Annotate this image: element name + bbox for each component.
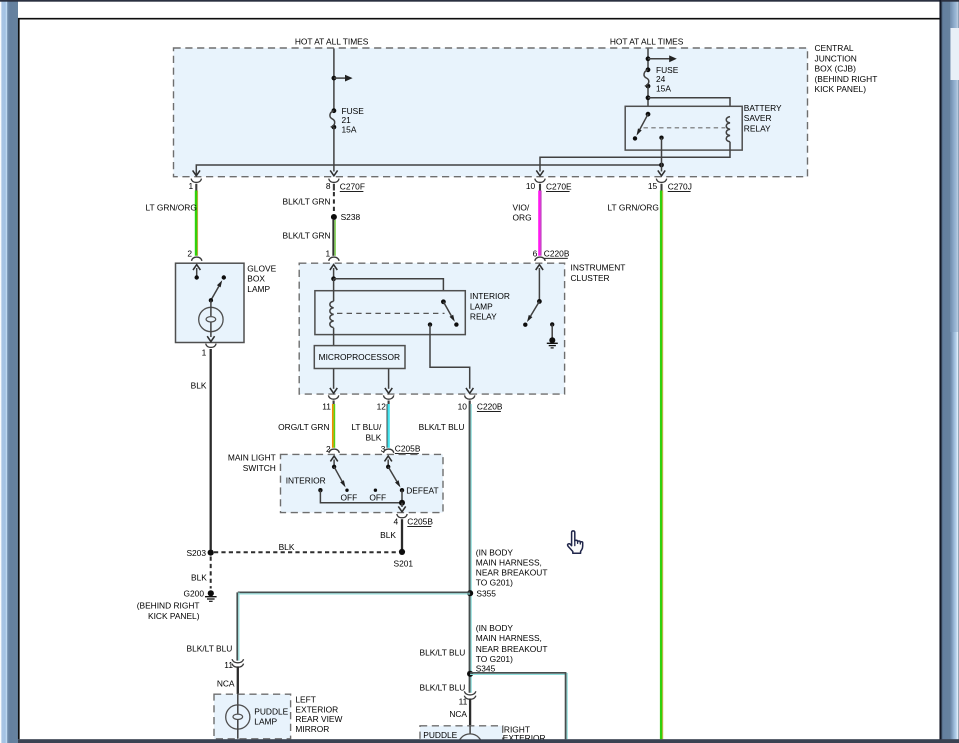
svg-text:11: 11 [224,660,233,670]
wire label BLK/LT BLU (above S345) [420,648,466,658]
svg-text:C270F: C270F [340,181,365,191]
relay contact (right) [454,322,458,326]
svg-text:(BEHIND RIGHT: (BEHIND RIGHT [815,74,878,84]
contact OFF (right) [369,489,386,503]
svg-text:G200: G200 [184,589,205,599]
svg-text:LAMP: LAMP [247,284,270,294]
svg-text:LEFT: LEFT [295,694,315,704]
relay actuation dashed link [644,127,726,129]
pin number 8 and connector label C270F [326,181,365,191]
wire INTERIOR contact to output junction [320,490,402,503]
wire pin 1 dot to coil [333,279,335,301]
svg-text:15A: 15A [342,124,357,134]
svg-text:INTERIOR: INTERIOR [286,476,326,486]
connector cup cluster pin 6 [535,257,545,261]
switch entry arrow pin 2 [330,456,337,469]
svg-text:MICROPROCESSOR: MICROPROCESSOR [319,352,400,362]
wire LT BLU/BLK pin 12 to switch pin 3 [387,404,389,448]
wire ORG/LT GRN pin 11 to switch pin 2 [333,404,335,448]
svg-text:BLK: BLK [191,572,207,582]
svg-text:LT GRN/ORG: LT GRN/ORG [608,202,659,212]
svg-text:MAIN HARNESS,: MAIN HARNESS, [476,557,542,567]
fuse F24 [644,67,650,88]
connector cup cluster pin 1 [329,257,339,261]
instrument cluster dashed enclosure [299,263,564,394]
svg-text:BLK: BLK [380,530,396,540]
glove box lamp bulb [199,300,223,331]
svg-text:VIO/: VIO/ [513,202,530,212]
connector cup pin 10 C270E [535,179,545,191]
wire BLK/LT BLU pin 10 down [470,404,472,693]
wire microprocessor to pin 12 [388,369,390,389]
svg-text:MAIN HARNESS,: MAIN HARNESS, [476,633,542,643]
svg-text:10: 10 [526,181,536,191]
S345 harness label [476,623,548,673]
connector cup cluster pin 11 [328,395,338,404]
right puddle lamp bulb [458,726,482,743]
cluster exit arrow pin 10 [466,388,473,393]
wire feed to fuse 21 [333,49,335,111]
svg-text:SAVER: SAVER [744,113,772,123]
svg-text:KICK PANEL): KICK PANEL) [148,611,200,621]
svg-text:BLK/LT BLU: BLK/LT BLU [420,648,466,658]
cluster exit arrow pin 11 [330,388,337,393]
svg-text:15A: 15A [656,84,671,94]
svg-text:LAMP: LAMP [254,717,277,727]
instrument cluster label [571,263,626,283]
battery saver relay box [625,106,742,150]
central junction box CJB dashed enclosure [174,48,808,177]
svg-text:C270J: C270J [668,181,692,191]
CJB label [815,43,878,94]
wire fuse 24 to relay coil (top path) [646,95,730,116]
battery saver relay label [744,103,782,134]
left puddle lamp dashed enclosure [214,694,291,739]
pin 2 and 3 cups with labels C205B [326,444,339,454]
svg-text:BLK: BLK [365,433,381,443]
svg-text:(IN BODY: (IN BODY [476,623,514,633]
svg-text:LAMP: LAMP [470,301,493,311]
svg-text:SWITCH: SWITCH [243,463,276,473]
contact INTERIOR [286,476,326,493]
connector cup cluster pin 10 [465,395,475,404]
interior lamp relay label [470,291,510,322]
wire relay output to pin 15 [661,138,663,172]
svg-text:11: 11 [322,402,331,412]
microprocessor label [319,352,400,362]
wire relay coil to pin 10 (line A) [540,142,730,172]
svg-text:C270E: C270E [546,181,572,191]
glove box lamp label [247,263,276,294]
svg-text:BLK/LT GRN: BLK/LT GRN [283,197,331,207]
wire BLK glove box to S203 [210,349,212,550]
svg-text:TO G201): TO G201) [476,654,513,664]
left mirror label [295,694,342,734]
right mirror label [503,725,546,743]
contact OFF (left) [341,489,358,503]
svg-text:10: 10 [458,402,468,412]
microprocessor box [314,346,405,369]
wire label LT GRN/ORG (left) [146,202,197,212]
svg-text:12: 12 [377,402,387,412]
wire label BLK/LT BLU (left branch) [187,644,233,654]
splice S345 [467,671,473,677]
svg-text:(BEHIND RIGHT: (BEHIND RIGHT [137,600,200,610]
svg-text:OFF: OFF [369,492,386,502]
wire relay output to pin 10 [430,325,470,389]
svg-text:ORG/LT GRN: ORG/LT GRN [278,422,329,432]
svg-text:1: 1 [202,347,207,357]
svg-text:(IN BODY: (IN BODY [476,547,514,557]
left scrollbar chrome [0,0,18,743]
svg-text:HOT AT ALL TIMES: HOT AT ALL TIMES [295,36,369,46]
cluster exit arrow pin 12 [385,388,392,393]
wire label BLK/LT GRN (lower) [283,230,331,240]
wire relay output bus (line B) [196,165,661,176]
svg-text:NEAR BREAKOUT: NEAR BREAKOUT [476,568,548,578]
wire BLK S203 to G200 (dashed) [191,557,211,589]
wire NCA to right puddle lamp [449,699,470,726]
contact DEFEAT [400,486,439,496]
pin number 1 [202,347,207,357]
left puddle lamp label [254,706,288,726]
inline connector pin 11 (right) [459,691,476,706]
ground G200 [205,590,217,601]
cluster entry arrow pin 6 [536,265,543,304]
interior switch blade (left) [334,467,345,488]
inline connector pin 11 (left) [224,659,243,670]
pin 1 exit arrow [193,170,200,175]
svg-text:6: 6 [533,248,538,258]
svg-text:S201: S201 [394,558,414,568]
svg-text:RELAY: RELAY [744,124,771,134]
svg-text:BLK/LT BLU: BLK/LT BLU [420,683,466,693]
svg-text:BOX: BOX [247,274,265,284]
svg-text:LT BLU/: LT BLU/ [351,422,382,432]
svg-text:C220B: C220B [544,248,570,258]
glove box switch blade [209,280,223,302]
wire LT GRN/ORG pin 15 down page [661,191,663,740]
pin numbers 11 12 10 and connector label C220B [322,401,503,411]
connector cup pin 4 C205B [394,514,434,527]
connector cup pin 8 C270F [329,179,339,191]
wire fuse 24 to relay [647,86,649,114]
wire label BLK/LT BLU [419,422,465,432]
defeat switch blade (right) [388,467,400,488]
pin number 15 and connector label C270J [648,181,692,191]
svg-text:NCA: NCA [449,709,467,719]
svg-text:KICK PANEL): KICK PANEL) [815,84,867,94]
svg-text:BLK: BLK [279,542,295,552]
svg-text:CLUSTER: CLUSTER [571,273,610,283]
relay actuation dashed link [337,312,445,314]
main light switch label [228,453,276,473]
svg-text:S355: S355 [476,589,496,599]
relay contact (output) [428,322,432,326]
svg-text:GLOVE: GLOVE [247,263,276,273]
right scrollbar chrome [941,0,959,743]
svg-text:15: 15 [648,181,658,191]
svg-text:OFF: OFF [341,492,358,502]
connector cup glove box pin 1 [206,344,216,348]
splice S203 [186,548,213,558]
cluster internal ground [547,337,558,348]
svg-text:BLK: BLK [191,380,207,390]
node tap with arrow (left bus) [332,75,353,82]
left puddle lamp bulb [226,694,250,739]
wire BLK/LT GRN S238 to cluster pin 1 [333,220,335,256]
pin number 2 [187,248,192,258]
svg-text:INTERIOR: INTERIOR [470,291,510,301]
relay switch pivot [646,112,651,117]
svg-text:NCA: NCA [217,678,235,688]
wire label BLK/LT GRN (upper) [283,197,331,207]
wire fuse 21 to pin 8 [333,127,335,171]
switch exit arrow pin 4 [398,503,405,512]
pin 8 exit arrow [330,170,337,175]
wire label BLK/LT BLU (below S345) [420,683,466,693]
net label HOT AT ALL TIMES (left) [295,36,369,46]
svg-text:BATTERY: BATTERY [744,103,782,113]
mouse cursor (hand pointer) [568,531,583,553]
relay switch pivot contact [441,299,446,304]
glove box lamp enclosure [176,263,245,342]
svg-text:S203: S203 [186,548,206,558]
svg-text:RELAY: RELAY [470,312,497,322]
output junction dot [399,500,405,506]
interior lamp relay box [315,291,465,335]
svg-text:BLK/LT BLU: BLK/LT BLU [419,422,465,432]
top window edge [0,0,959,2]
relay contact (left) [633,136,637,140]
pin number 1 [189,181,194,191]
svg-text:REAR VIEW: REAR VIEW [295,714,342,724]
svg-text:EXTERIOR: EXTERIOR [295,704,338,714]
glove box exit arrow pin 1 [207,332,214,342]
svg-text:BOX (CJB): BOX (CJB) [815,64,857,74]
pin 15 exit arrow [658,170,665,175]
ground G200 label [137,589,205,621]
svg-text:LT GRN/ORG: LT GRN/ORG [146,202,197,212]
svg-text:CENTRAL: CENTRAL [815,43,854,53]
pin number 10 and connector label C270E [526,181,572,191]
switch entry arrow pin 3 [385,456,392,469]
svg-text:S238: S238 [341,212,361,222]
splice S238 [331,212,361,222]
wire BLK/LT BLU S345 to right feed [470,673,567,739]
svg-text:BLK/LT BLU: BLK/LT BLU [187,644,233,654]
right puddle lamp label [423,730,457,740]
relay switch blade [637,114,649,135]
pin 10 exit arrow [536,170,543,175]
wire label BLK [191,380,207,390]
right puddle lamp dashed enclosure [420,726,503,743]
svg-text:BLK/LT GRN: BLK/LT GRN [283,230,331,240]
splice S201 [394,549,414,569]
wire BLK pin 4 to S201 [380,519,402,549]
svg-text:MIRROR: MIRROR [295,724,329,734]
S355 harness label [476,547,548,598]
connector cup pin 15 C270J [656,179,666,191]
wire label LT GRN/ORG (right) [608,202,659,212]
junction on line B at relay output [659,163,664,168]
connector cup glove box pin 2 [192,257,202,261]
wire BLK/LT GRN C270F to S238 (dashed) [333,192,335,214]
wire BLK/LT BLU S355 to left mirror [237,592,470,660]
svg-text:HOT AT ALL TIMES: HOT AT ALL TIMES [610,36,684,46]
wire VIO/ORG pin 10 to cluster pin 6 [539,191,541,256]
wire label LT BLU/BLK [351,422,382,443]
svg-text:JUNCTION: JUNCTION [815,53,857,63]
relay coil L1 [726,117,730,142]
wire LT GRN/ORG pin1 to glove box lamp [196,191,198,256]
cluster switch contact (left) [523,323,527,327]
svg-text:1: 1 [326,248,331,258]
glove box entry arrow pin 2 [193,265,200,280]
bottom dark bar overlay [18,739,959,743]
page frame lines [18,18,941,20]
wire label ORG/LT GRN [278,422,329,432]
wire label VIO/ORG [513,202,532,222]
wire NCA to left puddle lamp [217,666,238,694]
pin number 6 and connector label C220B [533,248,570,258]
svg-text:8: 8 [326,181,331,191]
svg-text:TO G201): TO G201) [476,578,513,588]
connector cup pin 1 C270F [191,179,201,191]
fuse 21 value label [342,106,365,135]
svg-text:DEFEAT: DEFEAT [406,486,438,496]
cluster dimmer switch blade [527,301,539,322]
svg-text:C205B: C205B [407,516,433,526]
fuse F21 [330,108,336,129]
svg-text:C220B: C220B [477,401,503,411]
cluster entry arrow pin 1 [330,265,337,282]
svg-text:4: 4 [394,517,399,527]
interior lamp relay coil [330,301,334,327]
relay switch blade [443,302,454,322]
wire coil to microprocessor [333,328,335,346]
cluster switch contact to ground [550,322,554,340]
main light switch dashed enclosure [281,454,444,512]
relay contact (output) [659,136,663,140]
svg-text:INSTRUMENT: INSTRUMENT [571,263,626,273]
wire BLK S201 to S203 (dashed) [214,542,399,552]
glove box switch contact [222,275,226,279]
wire feed to fuse 24 [647,49,649,70]
bottom dark bar [18,739,959,743]
pin number 1 [326,248,331,258]
wire pin 1 to relay switch [334,279,444,302]
svg-text:PUDDLE: PUDDLE [254,706,288,716]
svg-text:11: 11 [459,696,468,706]
svg-text:1: 1 [189,181,194,191]
svg-text:PUDDLE: PUDDLE [423,730,457,740]
splice S355 [467,590,473,596]
net label HOT AT ALL TIMES (right) [610,36,684,46]
connector cup cluster pin 12 [383,395,393,404]
svg-text:MAIN LIGHT: MAIN LIGHT [228,453,276,463]
svg-text:2: 2 [187,248,192,258]
fuse 24 value label [656,65,679,94]
svg-text:ORG: ORG [513,213,532,223]
wire microprocessor to pin 11 [333,369,335,389]
svg-text:C205B: C205B [395,444,421,454]
wire DEFEAT contact to output junction [401,490,403,503]
node tap with arrow (right bus) [646,55,677,62]
svg-text:NEAR BREAKOUT: NEAR BREAKOUT [476,644,548,654]
